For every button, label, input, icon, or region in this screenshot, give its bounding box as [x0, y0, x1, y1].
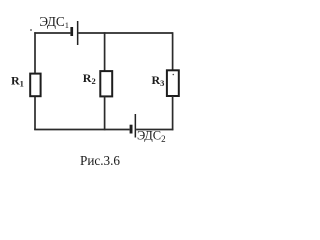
battery ЭДС2 positive plate (long thin bar)	[135, 114, 137, 138]
svg-text:R1: R1	[11, 73, 24, 88]
wire bottom horizontal left segment (to ЭДС2 minus plate)	[34, 129, 129, 131]
wire top-left horizontal segment	[34, 32, 70, 34]
battery ЭДС1 positive plate (long thin bar)	[77, 21, 79, 45]
label ЭДС1	[39, 14, 69, 30]
resistor R2 body	[100, 71, 112, 96]
wire left vertical (top-left corner down to R1)	[34, 32, 36, 73]
wire left vertical (R1 down to bottom-left corner)	[34, 97, 36, 130]
svg-text:R2: R2	[83, 71, 96, 86]
svg-text:ЭДС1: ЭДС1	[39, 14, 69, 30]
resistor R3 body	[167, 70, 179, 96]
stray scan dot inside R3	[173, 74, 175, 76]
battery ЭДС2 negative plate (short thick bar)	[130, 125, 133, 134]
label R1	[11, 73, 24, 88]
wire right vertical (top-right corner down to R3)	[172, 32, 174, 70]
svg-text:R3: R3	[152, 73, 165, 88]
svg-text:ЭДС2: ЭДС2	[137, 129, 166, 144]
wire middle vertical (R2 down to bottom junction)	[104, 96, 106, 130]
svg-text:Рис.3.6: Рис.3.6	[80, 153, 120, 168]
stray scan dot near top-left corner	[30, 29, 32, 31]
wire right vertical (R3 down to bottom-right corner)	[172, 96, 174, 130]
wire top-right horizontal segment	[78, 32, 172, 34]
battery ЭДС1 negative plate (short thick bar)	[70, 27, 73, 36]
resistor R1 body	[30, 74, 40, 97]
label ЭДС2	[137, 129, 166, 144]
wire bottom horizontal right segment (ЭДС2 to bottom-right corner)	[136, 129, 173, 131]
label R3	[152, 73, 165, 88]
wire middle vertical (top junction down to R2)	[104, 32, 106, 71]
label R2	[83, 71, 96, 86]
caption Рис.3.6	[80, 153, 120, 168]
